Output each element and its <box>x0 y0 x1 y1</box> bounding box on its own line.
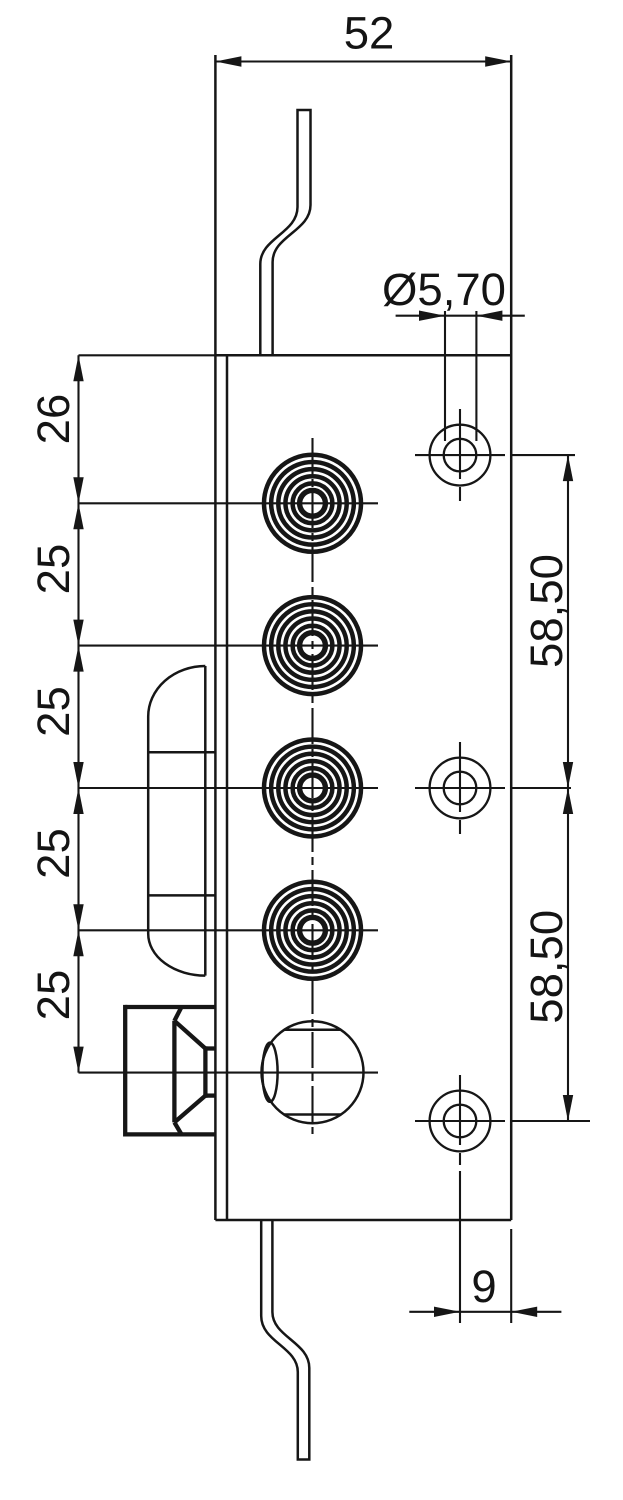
knob 3 centerline <box>79 787 379 789</box>
bolt block left edge <box>123 1005 127 1137</box>
svg-text:25: 25 <box>28 828 79 879</box>
dim dia extension left <box>444 311 446 441</box>
bottom connecting rod <box>261 1221 309 1460</box>
screw hole 3 inner <box>444 1105 477 1138</box>
arrow left x77 y645.6 up <box>73 646 83 672</box>
arrow 52 left <box>215 56 241 66</box>
arrow dia right <box>476 311 502 321</box>
right extension line hole 3 <box>511 1120 590 1122</box>
arrow left x77 y930.3 up <box>73 930 83 956</box>
follower circle <box>262 1021 364 1123</box>
handle lower horizontal line <box>148 894 215 897</box>
bolt chamfer bottom-left <box>174 1122 181 1134</box>
arrow left x77 y645.6 down <box>73 620 83 646</box>
arrow left x77 y788 down <box>73 762 83 788</box>
bolt block top edge <box>125 1005 215 1009</box>
arrow left x77 y503.3 up <box>73 503 83 529</box>
dimension lines <box>79 62 569 1324</box>
lock body bottom edge <box>215 1219 511 1222</box>
screw hole 2 crosshair h <box>415 787 505 789</box>
screw hole 3 outer <box>430 1091 491 1152</box>
arrow dia left <box>419 311 445 321</box>
bolt taper bottom diagonal <box>174 1096 205 1123</box>
dim dia extension right <box>475 311 477 441</box>
follower side ellipse <box>262 1043 277 1102</box>
follower centerline <box>79 1072 379 1074</box>
arrow 9 left <box>434 1307 460 1317</box>
screw hole 2 outer <box>430 758 491 819</box>
vertical centerline through knobs <box>311 438 313 1134</box>
dim dia 5,70 line <box>396 315 525 317</box>
svg-text:52: 52 <box>344 8 395 59</box>
dim 52 line <box>215 60 511 62</box>
svg-text:25: 25 <box>28 686 79 737</box>
arrow 52 right <box>485 56 511 66</box>
lock body right edge + 52 extension line <box>510 55 513 1220</box>
svg-text:25: 25 <box>28 970 79 1021</box>
handle (nut follower) outline <box>148 666 205 976</box>
bolt block <box>125 1005 215 1137</box>
knob spring 3 <box>264 740 361 837</box>
arrow right x568 y455.1 up <box>563 455 573 481</box>
svg-text:26: 26 <box>28 394 79 445</box>
lock body left edge + 52 extension line <box>214 55 217 1220</box>
svg-text:58,50: 58,50 <box>521 910 572 1024</box>
bolt taper top diagonal <box>174 1021 205 1049</box>
faceplate inner line <box>226 355 229 1220</box>
handle right vertical line <box>204 666 207 976</box>
arrow 9 right <box>511 1307 537 1317</box>
bolt face vertical <box>203 1046 207 1097</box>
svg-text:9: 9 <box>471 1261 496 1312</box>
knob 1 centerline <box>79 502 379 504</box>
knob spring 2 <box>264 597 361 694</box>
top connecting rod <box>260 110 310 354</box>
svg-text:58,50: 58,50 <box>521 554 572 668</box>
lock body top edge <box>215 354 511 357</box>
arrow left x77 y788 up <box>73 788 83 814</box>
bolt chamfer top-left <box>174 1007 181 1021</box>
follower bottom chord <box>284 1113 341 1116</box>
knob 2 centerline <box>79 645 379 647</box>
knob spring 4 <box>264 882 361 979</box>
handle upper horizontal line <box>148 751 215 754</box>
right extension line hole 1 <box>511 454 575 456</box>
screw hole 2 inner <box>444 772 477 805</box>
arrow left x77 y503.3 down <box>73 477 83 503</box>
knob 4 centerline <box>79 929 379 931</box>
follower top chord <box>284 1029 341 1032</box>
arrow left x77 y930.3 down <box>73 904 83 930</box>
knob spring 1 <box>264 455 361 552</box>
arrow right x568 y788 up <box>563 788 573 814</box>
arrow left x77 y355.3 up <box>73 355 83 381</box>
dim 9 extension left <box>459 1171 461 1323</box>
screw hole 2 crosshair v <box>459 742 461 834</box>
svg-text:Ø5,70: Ø5,70 <box>382 264 506 315</box>
right dimension line <box>567 455 569 1121</box>
arrow right x568 y788 down <box>563 762 573 788</box>
arrowheads <box>73 56 573 1317</box>
screw hole 3 crosshair v <box>459 1075 461 1165</box>
screw hole 1 crosshair h <box>415 454 505 456</box>
centerlines <box>79 355 591 1165</box>
svg-text:25: 25 <box>28 544 79 595</box>
screw hole 1 crosshair v <box>459 409 461 501</box>
dim 9 line <box>409 1311 561 1313</box>
top extension line y=355 <box>79 354 216 356</box>
bolt face bottom stub <box>205 1093 215 1097</box>
bolt face top stub <box>205 1046 215 1050</box>
arrow right x568 y1121 down <box>563 1095 573 1121</box>
left dimension line <box>77 355 79 1072</box>
dim 9 extension right <box>510 1229 512 1323</box>
screw hole 3 crosshair h <box>415 1120 505 1122</box>
bolt inner vertical <box>172 1021 176 1123</box>
screw hole 1 outer <box>430 425 491 486</box>
right extension line hole 2 <box>511 787 571 789</box>
bolt block bottom edge <box>125 1132 215 1136</box>
arrow left x77 y1072.6 down <box>73 1047 83 1073</box>
screw hole 1 inner <box>444 439 477 472</box>
